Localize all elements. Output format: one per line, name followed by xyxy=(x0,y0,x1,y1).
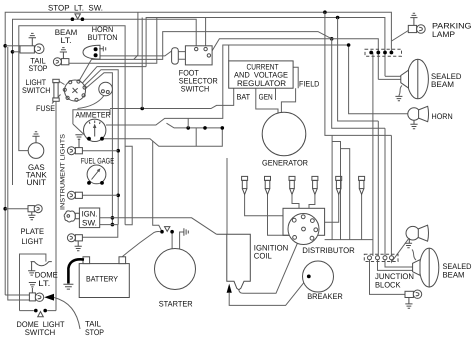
plate light xyxy=(28,206,34,212)
wire: tail lamp lower branch xyxy=(5,294,29,296)
svg-text:LT.: LT. xyxy=(38,279,50,288)
node: breaker contact xyxy=(307,275,311,279)
wire: ammeter terminal line to generator loop xyxy=(102,128,222,146)
wire: distributor hanger 2 xyxy=(332,142,340,240)
instrument lamp 1 xyxy=(75,148,82,154)
sealed beam 1 ground wire xyxy=(399,86,402,96)
instrument lamp 3 xyxy=(75,235,82,241)
wire: foot selector terminal 2 riser xyxy=(205,18,207,48)
wire: instrument lamp 1 feed xyxy=(82,150,118,152)
ammeter enclosure xyxy=(73,110,110,138)
node: ignition switch junction lower xyxy=(111,223,115,227)
foot selector switch pedal xyxy=(172,48,179,64)
svg-text:SWITCH: SWITCH xyxy=(181,85,210,94)
svg-text:SWITCH: SWITCH xyxy=(25,328,56,337)
wire: tail stop lamp wire B xyxy=(13,51,21,53)
tail lamp 2 ground xyxy=(29,283,36,293)
wire: long vertical 3 lower xyxy=(384,128,386,256)
wire: long vertical 2 lower xyxy=(377,121,379,256)
wire: sealed beam 1 feed lower xyxy=(378,78,401,80)
svg-text:LIGHT: LIGHT xyxy=(22,237,44,246)
svg-text:IGN.: IGN. xyxy=(82,210,98,219)
wire: sealed beam 1 feed upper xyxy=(385,75,401,77)
wire: bus B staircase to junction block xyxy=(332,39,385,128)
battery ground cable xyxy=(68,259,84,283)
generator G1 xyxy=(262,112,306,156)
svg-text:PLATE: PLATE xyxy=(21,227,45,236)
wire: light switch fan line 3 xyxy=(83,67,147,83)
wire: beam lamp line to bus xyxy=(69,18,157,64)
svg-text:FUEL GAGE: FUEL GAGE xyxy=(81,157,114,166)
starter switch symbol xyxy=(160,230,164,234)
tail stop lamp 2 xyxy=(29,293,35,301)
wire: instrument panel frame top and gas tank feed xyxy=(19,26,125,225)
wire: tail stop lamp wire A xyxy=(5,45,20,47)
wire: starter switch drop xyxy=(153,141,162,231)
dimmer contact xyxy=(99,82,113,96)
battery ground xyxy=(63,284,73,289)
junction block top xyxy=(365,49,402,56)
tail stop lamp ground xyxy=(29,33,36,45)
instrument lamp 2 xyxy=(75,192,82,198)
svg-text:LAMP: LAMP xyxy=(432,30,455,39)
wire: spark plug 1 lead xyxy=(245,194,283,215)
wire: frame staple branch xyxy=(125,146,132,225)
node: bus D junction xyxy=(347,43,351,47)
wire: bus 137 from top line xyxy=(134,12,138,59)
svg-text:FIELD: FIELD xyxy=(299,80,319,89)
svg-text:DOME: DOME xyxy=(35,270,58,279)
horn 1 ground xyxy=(410,120,417,129)
wire: fuse top link xyxy=(56,80,65,85)
ammeter gauge xyxy=(84,119,106,141)
beam lamp ground xyxy=(60,48,67,59)
svg-text:UNIT: UNIT xyxy=(27,178,47,187)
wire: parking lamp 1 diagonal xyxy=(392,31,409,42)
wire: breaker to coil return xyxy=(229,276,309,305)
spark plug 6 xyxy=(359,176,365,194)
coil arrow xyxy=(227,284,232,293)
wire: bus C staircase to junction block xyxy=(338,18,379,122)
wire: spark plug 3 lead xyxy=(292,194,299,208)
wire: coil supply hanger xyxy=(226,158,228,234)
svg-text:STOP LT. SW.: STOP LT. SW. xyxy=(48,4,103,13)
instrument lamp 1 ground xyxy=(75,135,82,149)
svg-text:BLOCK: BLOCK xyxy=(375,281,401,290)
regulator box xyxy=(229,61,293,88)
svg-text:DISTRIBUTOR: DISTRIBUTOR xyxy=(302,246,355,255)
distributor housing xyxy=(283,208,325,235)
wire: ammeter to regulator BAT line xyxy=(110,88,234,108)
wire: spark plug 5 lead xyxy=(325,194,339,222)
node: instrument lamp 2 junction xyxy=(116,194,120,198)
dome light switch symbol xyxy=(20,310,57,312)
wire: fuse leader line xyxy=(52,95,61,104)
wire: outer top/left border bus (battery feed) xyxy=(5,12,391,295)
starter ground xyxy=(184,228,188,235)
dome lamp xyxy=(31,262,52,266)
svg-text:GENERATOR: GENERATOR xyxy=(262,159,308,168)
parking lamp 1 ground xyxy=(410,13,417,25)
fuse F1 xyxy=(53,79,59,82)
battery BT1 xyxy=(79,264,129,298)
horn 2 xyxy=(406,226,420,240)
wire: tail lamp feed vertical xyxy=(8,47,30,300)
svg-text:AMMETER: AMMETER xyxy=(75,111,110,120)
sealed beam 2 xyxy=(420,248,439,287)
parking lamp 1 xyxy=(408,25,416,32)
parking lamp 2 xyxy=(405,291,413,297)
wire: generator three dot line xyxy=(167,123,223,128)
horn button xyxy=(83,45,100,59)
wire: starter ground link xyxy=(180,232,184,250)
node: tail stop junction A xyxy=(3,44,7,48)
wire: instrument lamp 2 feed xyxy=(82,194,118,196)
wire: generator U branch xyxy=(195,128,197,146)
wire: parking lamp 2 feed xyxy=(370,260,406,295)
wire: stop light switch line with foot selector drop xyxy=(146,18,385,67)
spark plug 5 xyxy=(336,176,342,194)
beam lamp xyxy=(61,59,69,65)
tail stop arrow xyxy=(44,294,54,301)
wire: regulator FIELD lead to generator xyxy=(281,88,295,113)
svg-text:LT.: LT. xyxy=(61,36,72,45)
wire: light switch line to beam selector bus xyxy=(79,32,332,81)
ignition coil xyxy=(216,234,250,290)
svg-text:GEN: GEN xyxy=(259,92,273,101)
wire: starter feed drop xyxy=(171,232,173,249)
svg-text:STARTER: STARTER xyxy=(159,299,193,308)
wire: long vertical 1 lower xyxy=(372,114,374,256)
starter motor xyxy=(155,249,196,290)
svg-text:BEAM: BEAM xyxy=(431,80,454,89)
wire: regulator top riser xyxy=(228,45,230,61)
wire: distributor bottom rail xyxy=(325,239,373,241)
wire: regulator GEN lead xyxy=(256,88,278,112)
wire: foot selector terminal 3 line to junction block xyxy=(210,39,378,55)
plate light ground xyxy=(28,212,35,220)
svg-text:COIL: COIL xyxy=(254,252,273,261)
wire: light switch fan line 1 to bus 112 xyxy=(86,73,113,225)
svg-text:BREAKER: BREAKER xyxy=(307,292,343,301)
dome lamp ground xyxy=(28,262,35,276)
wire: bus 142 riser xyxy=(141,18,143,109)
svg-text:SW.: SW. xyxy=(82,219,97,228)
svg-text:FUSE: FUSE xyxy=(36,104,55,113)
node: generator line dot 3 xyxy=(221,126,225,130)
wire: plate light feed xyxy=(5,208,28,210)
wire: horn 2 feed diagonal xyxy=(392,238,410,263)
dome light enclosure xyxy=(20,254,46,311)
tail stop lamp xyxy=(20,46,34,53)
gas tank unit xyxy=(28,143,44,159)
breaker points xyxy=(303,261,334,292)
sealed beam 2 ground wire xyxy=(412,250,416,261)
node: generator line dot 2 xyxy=(203,126,207,130)
wire: panel frame left vertical xyxy=(55,101,57,311)
svg-text:BAT: BAT xyxy=(236,92,250,101)
svg-text:INSTRUMENT LIGHTS: INSTRUMENT LIGHTS xyxy=(60,134,67,210)
svg-text:BUTTON: BUTTON xyxy=(88,33,118,42)
node: instrument lamp 1 junction xyxy=(116,149,120,153)
wire: ignition switch to coil line xyxy=(100,218,217,234)
svg-text:HORN: HORN xyxy=(432,112,453,121)
wire: regulator FIELD tab xyxy=(293,67,298,88)
wire: spark plug 4 lead xyxy=(309,194,315,208)
wire: spark plug 2 lead xyxy=(268,194,290,235)
wire: long vertical 3 upper xyxy=(384,53,386,77)
gas tank unit ground xyxy=(32,132,39,143)
node: ignition switch junction upper xyxy=(111,216,115,220)
stop light switch symbol xyxy=(71,17,75,21)
wire: sealed beam 2 feed upper xyxy=(385,260,413,268)
ignition switch box U2 xyxy=(79,208,99,228)
svg-text:STOP: STOP xyxy=(85,328,104,337)
light switch xyxy=(65,80,86,101)
wire: dot 1 riser xyxy=(187,118,189,128)
node: plate light junction xyxy=(3,207,7,211)
distributor cap xyxy=(288,214,319,245)
node: top line junction A xyxy=(323,10,327,14)
sealed beam 1 ground xyxy=(395,96,402,100)
wire: dimmer to ammeter curve xyxy=(78,96,105,109)
svg-text:BEAM: BEAM xyxy=(443,270,465,279)
node: beam line junction B xyxy=(330,37,334,41)
node: ammeter bus junction xyxy=(140,107,144,111)
sealed beam 1 xyxy=(407,59,428,99)
wire: regulator divider tick xyxy=(275,88,277,100)
wire: bus A staircase to junction block xyxy=(325,12,392,135)
horn 1 xyxy=(408,108,420,120)
wire: coil HT lead to rotor xyxy=(239,229,304,293)
wire: long vertical 1 to junction block xyxy=(372,53,374,114)
junction block bottom xyxy=(364,254,398,261)
parking lamp 2 ground xyxy=(405,298,412,309)
svg-text:STOP: STOP xyxy=(29,64,48,73)
wire: spark plug 6 lead xyxy=(361,194,363,239)
wire: ignition switch lower to instrument lamp 3 xyxy=(82,225,117,238)
node: tail stop junction B xyxy=(11,50,15,54)
svg-text:REGULATOR: REGULATOR xyxy=(237,79,286,88)
wire: sealed beam 2 feed lower xyxy=(378,260,413,271)
foot selector switch box xyxy=(185,46,212,65)
wire: distributor hanger 3 xyxy=(341,149,350,240)
wire: battery positive diagonal xyxy=(122,231,160,256)
node: generator line dot 1 xyxy=(186,126,190,130)
svg-text:SWITCH: SWITCH xyxy=(22,86,51,95)
wire: long vertical 4 lower xyxy=(390,135,392,256)
fuel gage xyxy=(87,165,106,184)
instrument lamp 3 ground xyxy=(75,241,82,251)
svg-text:BATTERY: BATTERY xyxy=(86,274,119,283)
spark plug 2 xyxy=(265,176,271,194)
tail stop leader curve xyxy=(54,298,80,330)
wire: light switch fan line 2 to bus 118 xyxy=(85,70,119,225)
spark plug 1 xyxy=(242,176,248,194)
spark plug 3 xyxy=(289,176,295,194)
wire: horn button line to pedal xyxy=(97,51,171,56)
spark plug 4 xyxy=(312,176,318,194)
wire: second border bus (stop light circuit) xyxy=(13,19,197,185)
node: headlight bus junction C xyxy=(336,16,340,20)
wire: distributor hanger 1 xyxy=(331,135,333,239)
horn 2 ground xyxy=(405,238,412,247)
wire: gauge line over to bus D, horn feed xyxy=(106,45,408,125)
wire: long vertical 2 upper xyxy=(377,53,379,80)
ignition key xyxy=(75,213,79,219)
